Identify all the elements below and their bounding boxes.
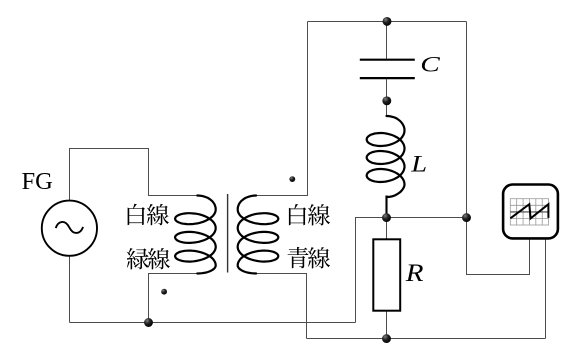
capacitor C plates: [360, 60, 415, 78]
wire: secondary coil bottom lead down to bottom rail: [256, 274, 306, 339]
wire: primary coil bottom lead down to left rail: [149, 274, 198, 323]
wire: secondary coil top lead up to top rail: [256, 22, 307, 196]
FG source circle: [42, 201, 97, 256]
transformer primary coil: [175, 196, 216, 274]
svg-text:C: C: [420, 52, 440, 77]
phase dot primary: [161, 289, 167, 295]
oscilloscope body: [503, 185, 558, 239]
wire: inductor bottom to L-R node: [386, 197, 388, 218]
wire: riser from left rail up to L-R node row: [356, 218, 387, 323]
inductor L bottom lead (thick): [385, 196, 387, 216]
wire: capacitor bottom plate to C-L node to inductor: [386, 79, 388, 116]
FG sine symbol: [56, 222, 83, 233]
junction dot right branch node: [462, 213, 471, 222]
label 白線 (primary white wire): [128, 204, 145, 225]
wire: L-R node down to resistor: [386, 218, 388, 240]
phase dot secondary: [289, 176, 295, 182]
wire: top rail: [308, 21, 467, 23]
oscilloscope sawtooth trace: [510, 204, 548, 218]
svg-text:L: L: [410, 151, 427, 177]
resistor R body: [373, 239, 400, 310]
inductor L coil: [367, 116, 405, 197]
wire: scope right lead: [545, 232, 547, 339]
junction dot bottom rail: [382, 334, 391, 343]
wire: right branch down from top rail through node to scope left lead: [467, 22, 530, 275]
junction dot top rail: [383, 17, 392, 26]
svg-text:R: R: [405, 259, 424, 287]
svg-text:FG: FG: [22, 168, 53, 195]
wire: left rail (FG bottom to riser): [70, 322, 356, 324]
oscilloscope screen grid: [510, 199, 548, 225]
transformer core: [227, 194, 229, 273]
junction dot C-L node: [382, 96, 391, 105]
junction dot left rail: [144, 318, 153, 327]
wire: top node down to capacitor: [386, 22, 388, 59]
label 白線 (secondary white wire): [289, 204, 306, 225]
wire: FG top to primary coil top: [70, 149, 198, 201]
wire: FG bottom down to left rail: [69, 256, 71, 323]
wire: bottom rail: [307, 338, 546, 340]
wire: L-R node across to right branch node: [387, 217, 467, 219]
label 緑線 (primary green wire): [127, 248, 149, 269]
junction dot L-R node: [382, 213, 391, 222]
label 青線 (secondary blue wire): [288, 247, 309, 268]
transformer secondary coil: [238, 196, 279, 274]
wire: resistor bottom to bottom rail: [386, 311, 388, 339]
oscilloscope screen axis line: [510, 211, 548, 213]
